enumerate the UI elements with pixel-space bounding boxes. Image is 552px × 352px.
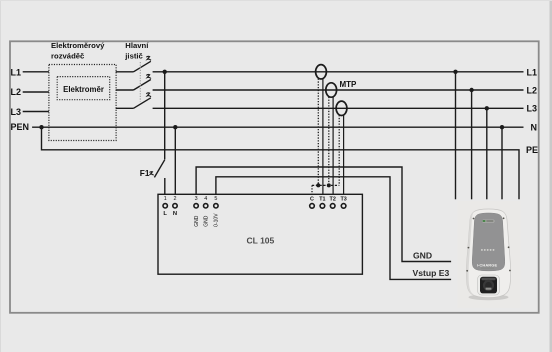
terminal C — [310, 196, 315, 208]
node PEN tap to N terminal — [173, 125, 177, 129]
svg-text:N: N — [531, 122, 538, 132]
svg-text:5: 5 — [214, 196, 217, 202]
svg-text:L2: L2 — [526, 85, 537, 95]
wire L2 bus — [153, 89, 524, 91]
wallbox socket connector — [483, 280, 494, 291]
svg-text:L3: L3 — [11, 107, 22, 117]
wire L1 drop — [455, 72, 457, 200]
node CT common junction 2 — [327, 183, 331, 187]
svg-text:PE: PE — [526, 145, 538, 155]
svg-text:T1: T1 — [319, 196, 325, 202]
svg-text:i-CHARGE: i-CHARGE — [477, 263, 498, 268]
wallbox screws — [466, 217, 510, 271]
svg-text:MTP: MTP — [340, 80, 358, 89]
terminal T3 — [340, 196, 346, 208]
wire L1 bus — [153, 71, 524, 73]
svg-text:L1: L1 — [11, 67, 22, 77]
terminal 3 GND — [194, 196, 200, 227]
meter inner dashed box — [57, 77, 109, 100]
svg-text:0-10V: 0-10V — [214, 213, 220, 227]
top window edge — [0, 0, 552, 1]
wallbox logo — [482, 220, 494, 223]
wallbox LEDs — [481, 249, 495, 251]
svg-text:L3: L3 — [526, 104, 537, 114]
breaker Q1 pole 1 hook — [146, 56, 151, 60]
outer border frame — [10, 41, 539, 313]
node CT common junction 1 — [316, 183, 320, 187]
wallbox body left shade — [466, 212, 476, 297]
wallbox body — [466, 209, 510, 298]
svg-text:GND: GND — [413, 250, 432, 260]
right window edge — [550, 0, 552, 352]
CT MTP L1 — [316, 65, 327, 79]
terminal 2 N — [173, 196, 177, 217]
node L3 tap right — [485, 106, 489, 110]
wallbox socket label — [486, 288, 492, 290]
svg-text:1: 1 — [164, 196, 167, 202]
fuse F1 hook — [150, 172, 154, 176]
node N tap right — [500, 125, 504, 129]
svg-text:L: L — [163, 211, 167, 217]
wire L3 left entry — [23, 111, 49, 113]
wire CT3 S1 to T3 — [343, 115, 345, 194]
breaker Q1 pole 3 blade — [134, 98, 151, 109]
breaker Q1 pole 3 hook — [146, 93, 151, 97]
svg-text:N: N — [173, 211, 177, 217]
node L1 tap to F1 — [163, 70, 167, 74]
svg-text:GND: GND — [194, 215, 200, 227]
svg-text:3: 3 — [195, 196, 198, 202]
svg-text:rozváděč: rozváděč — [51, 52, 85, 61]
wire L2 left entry — [23, 91, 49, 93]
svg-text:L1: L1 — [526, 67, 537, 77]
wallbox socket top band — [482, 278, 496, 280]
svg-text:T2: T2 — [330, 196, 336, 202]
left window edge — [0, 0, 1, 352]
terminal 1 L — [163, 196, 167, 217]
wire L2 drop — [471, 90, 473, 199]
wallbox socket recess — [478, 275, 500, 295]
svg-text:Elektroměrový: Elektroměrový — [51, 41, 105, 50]
fuse F1 blade — [154, 160, 164, 178]
node L1 tap right — [453, 70, 457, 74]
breaker Q1 pole 2 stub — [116, 89, 134, 91]
controller CL105 box — [158, 194, 362, 274]
terminal T2 — [330, 196, 336, 208]
wire F1 feed — [164, 72, 166, 160]
wire CT2 S1 to T2 — [332, 97, 334, 195]
wire L1 left entry — [23, 71, 49, 73]
wire L3 drop — [486, 108, 488, 199]
wallbox subtext — [481, 267, 494, 270]
breaker Q1 pole 3 stub — [116, 107, 134, 109]
svg-text:Vstup E3: Vstup E3 — [413, 268, 450, 278]
svg-text:L2: L2 — [11, 87, 22, 97]
node PEN junction — [39, 125, 43, 129]
wire CT1 S1 to T1 — [322, 79, 324, 195]
breaker Q1 pole 2 blade — [134, 80, 151, 91]
CT MTP L2 — [326, 83, 337, 97]
breaker Q1 pole 1 blade — [134, 61, 151, 72]
wire PE branch — [42, 127, 520, 199]
svg-text:PEN: PEN — [11, 122, 30, 132]
wallbox shadow — [469, 294, 509, 300]
wire GND output — [196, 167, 451, 262]
svg-text:T3: T3 — [340, 196, 346, 202]
svg-text:Hlavní: Hlavní — [125, 41, 149, 50]
svg-text:F1: F1 — [140, 168, 150, 178]
breaker Q1 linkage — [139, 62, 141, 102]
label Hlavni jistic — [124, 41, 149, 61]
svg-text:C: C — [310, 196, 314, 202]
wallbox socket connector inner — [485, 282, 492, 289]
wire CT2 S2 dotted — [328, 97, 330, 186]
svg-text:jistič: jistič — [124, 52, 143, 61]
CT MTP L3 — [336, 101, 347, 115]
terminal 4 GND — [204, 196, 210, 227]
wallbox photo background — [458, 201, 521, 308]
breaker Q1 pole 2 hook — [146, 75, 151, 79]
svg-text:GND: GND — [204, 215, 210, 227]
wire Vstup E3 output — [216, 177, 451, 280]
wallbox socket face — [480, 277, 497, 294]
wire C terminal dotted — [311, 185, 313, 194]
wire N drop — [501, 127, 503, 199]
wire CT common dashed — [312, 184, 339, 186]
breaker Q1 pole 1 stub — [116, 71, 134, 73]
meter cabinet dashed box — [49, 65, 116, 141]
svg-text:4: 4 — [204, 196, 207, 202]
wallbox front panel — [472, 213, 505, 271]
wire PEN bus — [32, 126, 523, 128]
node L2 tap right — [469, 88, 473, 92]
wire L3 bus — [153, 107, 524, 109]
wire N feed to terminal N — [174, 127, 176, 194]
terminal 5 0-10V — [214, 196, 220, 227]
svg-text:2: 2 — [174, 196, 177, 202]
svg-text:CL 105: CL 105 — [247, 235, 275, 245]
svg-text:Elektroměr: Elektroměr — [63, 85, 104, 94]
label Elektromerovy rozvadec — [51, 41, 105, 61]
wire F1 to terminal L — [164, 178, 166, 194]
wire CT3 S2 dotted — [338, 115, 340, 185]
terminal T1 — [319, 196, 325, 208]
wire CT1 S2 dotted — [317, 79, 319, 186]
